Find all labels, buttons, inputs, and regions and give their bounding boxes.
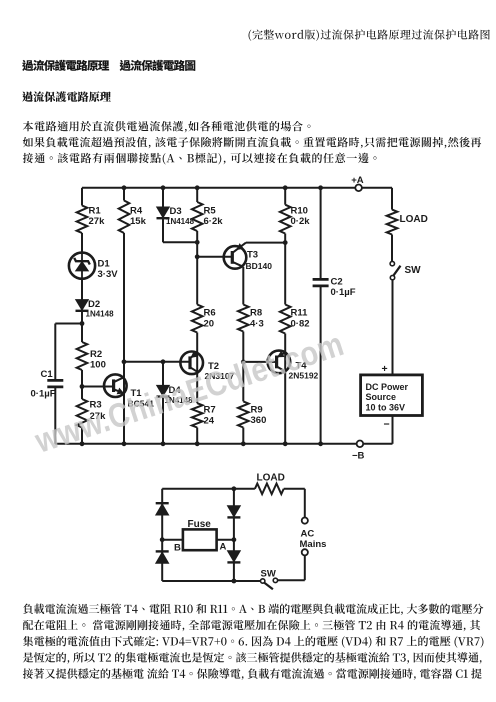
wire T1 base lead — [82, 386, 114, 388]
paragraph2 line2 — [23, 620, 480, 631]
paragraph1 line2 — [23, 137, 481, 148]
node AC mains upper terminal — [302, 518, 308, 524]
wire DC source to bottom rail — [392, 416, 394, 444]
paragraph2 line3 — [23, 636, 483, 648]
wire fuse-bridge top rail — [162, 488, 255, 490]
switch SW — [390, 261, 394, 265]
wire fuse-bridge bottom rail — [162, 580, 260, 582]
wire C1 branch — [55, 323, 82, 325]
svg-text:−: − — [384, 419, 390, 431]
svg-text:D2: D2 — [88, 299, 100, 310]
svg-text:R6: R6 — [204, 308, 216, 319]
svg-text:Fuse: Fuse — [188, 519, 212, 530]
svg-text:LOAD: LOAD — [400, 214, 428, 225]
resistor R1 — [77, 206, 88, 234]
wire D3 top lead — [162, 188, 164, 207]
wire AC right arm upper — [304, 489, 306, 518]
node D2-C1 junction — [80, 321, 85, 326]
svg-text:4·3: 4·3 — [250, 319, 264, 330]
node fuse left junction — [160, 537, 165, 542]
svg-text:0·82: 0·82 — [291, 319, 310, 330]
svg-text:100: 100 — [90, 360, 106, 371]
wire switch to DC source — [392, 280, 394, 375]
svg-text:D3: D3 — [170, 206, 182, 217]
svg-text:R8: R8 — [250, 308, 262, 319]
wire R8 to R9 — [242, 332, 244, 402]
node AC mains lower terminal — [302, 549, 308, 555]
svg-text:www.ChinaECdlet.com: www.ChinaECdlet.com — [29, 324, 348, 461]
wire bridge mid arm — [233, 489, 235, 581]
svg-text:D1: D1 — [98, 259, 111, 270]
node -B terminal — [357, 441, 364, 448]
node bridge mid bottom — [232, 579, 237, 584]
svg-text:T3: T3 — [247, 250, 258, 261]
zener diode D1 — [69, 253, 95, 279]
svg-text:R9: R9 — [251, 405, 263, 416]
wire D2 to R2 with C1 tap — [81, 311, 83, 342]
node top rail R4 — [122, 185, 127, 190]
wire R6 through T2 to R7 — [196, 333, 198, 404]
sub heading — [22, 91, 111, 102]
svg-text:BD140: BD140 — [246, 261, 273, 271]
wire fuse right lead — [217, 539, 234, 541]
wire R10 to R11 — [284, 234, 286, 305]
svg-text:R11: R11 — [291, 308, 309, 319]
wire D3 bottom lead — [162, 218, 164, 242]
svg-text:15k: 15k — [130, 216, 147, 227]
transistor T4 — [268, 351, 291, 374]
svg-text:DC Power: DC Power — [366, 382, 409, 392]
wire top supply rail — [82, 187, 355, 189]
diode D2 — [76, 300, 89, 311]
svg-text:360: 360 — [251, 415, 267, 426]
svg-text:B: B — [174, 543, 181, 554]
svg-text:Mains: Mains — [300, 539, 327, 550]
wire R4 top lead — [123, 188, 125, 201]
wire T3 emitter rail — [246, 242, 285, 244]
resistor LOAD — [387, 210, 398, 235]
svg-text:LOAD: LOAD — [257, 473, 285, 484]
wire D1 to D2 — [81, 279, 83, 300]
node T3 base junction — [195, 254, 200, 259]
fuse F1 — [183, 529, 217, 550]
wire R10 top lead — [284, 188, 286, 205]
svg-text:24: 24 — [204, 416, 215, 427]
switch SW (AC) — [261, 579, 265, 583]
resistor R11 — [280, 305, 291, 334]
wire R11 through T4 to rail — [284, 334, 286, 444]
wire T4 base lead — [243, 361, 276, 363]
node top rail R5 — [195, 185, 200, 190]
node top rail R10 — [283, 185, 288, 190]
svg-text:1N4148: 1N4148 — [166, 217, 195, 226]
wire R1 top lead — [81, 188, 83, 206]
svg-text:20: 20 — [204, 319, 215, 330]
svg-text:3·3V: 3·3V — [98, 269, 119, 280]
svg-text:1N4148: 1N4148 — [86, 310, 115, 319]
resistor LOAD (AC) — [255, 484, 284, 495]
resistor R9 — [238, 401, 249, 427]
svg-text:AC: AC — [301, 529, 315, 540]
wire R5 top lead — [196, 188, 198, 202]
svg-text:R10: R10 — [291, 206, 308, 217]
junction dots bottom rail — [80, 441, 85, 446]
node T4 base junction — [241, 360, 246, 365]
node fuse right junction — [232, 537, 237, 542]
wire bridge left arm — [161, 489, 163, 581]
svg-text:R4: R4 — [130, 206, 143, 217]
wire R5 to R6 — [196, 231, 198, 305]
wire T3 collector lead — [242, 267, 244, 305]
diode bridge D6 — [156, 550, 169, 552]
svg-text:SW: SW — [261, 569, 276, 580]
svg-text:27k: 27k — [89, 216, 106, 227]
paragraph2 line4 — [23, 652, 482, 663]
wire D4 top lead — [162, 362, 164, 386]
resistor R3 — [77, 399, 88, 428]
wire SW to AC corner — [278, 579, 305, 581]
resistor R8 — [238, 305, 249, 332]
svg-text:+A: +A — [351, 175, 364, 186]
header line — [249, 29, 490, 41]
node T1 base junction — [80, 384, 85, 389]
wire R2 to R3 — [81, 370, 83, 399]
title heading — [22, 60, 195, 71]
resistor R4 — [119, 201, 130, 234]
wire T3 base lead — [197, 256, 232, 258]
diode bridge D7 — [228, 506, 241, 517]
svg-text:C2: C2 — [331, 277, 343, 288]
transistor T2 — [180, 352, 203, 375]
wire R3 bottom lead — [81, 428, 83, 444]
svg-text:6·2k: 6·2k — [204, 216, 224, 227]
svg-text:0·2k: 0·2k — [291, 216, 311, 227]
wire T2 base rail — [124, 361, 190, 363]
diode D3 — [157, 207, 170, 218]
resistor R2 — [77, 342, 88, 370]
paragraph2 line1 — [23, 604, 483, 615]
resistor R7 — [192, 403, 203, 427]
node top rail D3 — [161, 185, 166, 190]
wire R7 bottom lead — [196, 428, 198, 444]
resistor R5 — [192, 202, 203, 231]
svg-text:R2: R2 — [90, 349, 102, 360]
wire R4 to T1 collector — [123, 233, 125, 444]
wire C2 top lead — [320, 188, 322, 280]
paragraph2 line5 — [23, 668, 482, 679]
paragraph1 line1 — [23, 121, 311, 132]
wire C2 bottom lead — [320, 286, 322, 444]
svg-text:0·1µF: 0·1µF — [331, 287, 356, 298]
wire load branch top — [391, 188, 393, 210]
resistor R10 — [280, 205, 291, 234]
svg-text:Source: Source — [366, 392, 397, 402]
wire load to switch — [391, 235, 393, 262]
paragraph1 line3 — [23, 153, 377, 165]
svg-text:A: A — [220, 542, 227, 553]
capacitor C1 — [47, 379, 63, 382]
svg-text:+: + — [382, 363, 388, 375]
diode bridge D8 — [228, 551, 241, 562]
node top rail C2 — [318, 185, 323, 190]
svg-text:10 to 36V: 10 to 36V — [366, 403, 406, 413]
wire bottom return rail — [55, 443, 356, 445]
node D4 top junction — [161, 359, 166, 364]
node R10-T3 emitter junction — [283, 240, 288, 245]
svg-text:R5: R5 — [204, 206, 217, 217]
svg-text:SW: SW — [405, 265, 422, 276]
diode D4 — [157, 385, 170, 396]
svg-text:R1: R1 — [89, 206, 102, 217]
resistor R6 — [192, 305, 203, 333]
wire R1 to D1 — [81, 233, 83, 253]
node R4-T2 base junction — [122, 359, 127, 364]
node D3-R5 junction — [195, 240, 200, 245]
svg-text:C1: C1 — [41, 369, 54, 380]
capacitor C2 — [313, 278, 329, 281]
transistor T1 — [104, 374, 127, 397]
wire AC right arm lower — [304, 555, 306, 580]
wire D4 bottom lead — [162, 397, 164, 444]
wire R9 bottom lead — [242, 428, 244, 444]
transistor T3 — [224, 246, 247, 269]
svg-text:−B: −B — [352, 451, 365, 462]
node bridge mid top — [232, 486, 237, 491]
svg-text:0·1µF: 0·1µF — [31, 389, 56, 400]
diode bridge D5 — [156, 502, 169, 504]
wire fuse left lead — [162, 539, 183, 541]
node +A terminal — [355, 185, 362, 192]
DC power source box — [361, 375, 423, 416]
